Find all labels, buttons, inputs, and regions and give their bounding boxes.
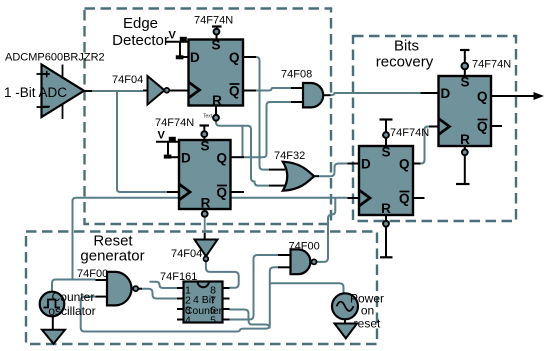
svg-text:Q: Q — [399, 157, 410, 172]
AND gate 74F08 — [291, 83, 331, 107]
svg-text:Q: Q — [229, 84, 240, 99]
svg-text:Q: Q — [229, 50, 240, 65]
wire clock line oscillator to FF3 clock — [73, 198, 348, 280]
svg-text:Counter: Counter — [185, 305, 223, 317]
wire FF1 R node to FF2 Q junction — [216, 121, 269, 186]
flip-flop FF2 74F74N — [167, 139, 244, 211]
svg-text:D: D — [361, 157, 371, 172]
svg-text:Q: Q — [477, 89, 488, 104]
svg-text:Counter: Counter — [52, 290, 95, 304]
Edge Detector block dashed box — [85, 9, 332, 225]
svg-text:74F00: 74F00 — [289, 241, 320, 253]
power on reset source — [332, 293, 358, 319]
counter oscillator source — [40, 292, 65, 317]
comparator U1 ADCMP600BRJZR2 — [37, 65, 85, 120]
wire reset net branch to Power-on-reset — [270, 283, 344, 293]
svg-text:R: R — [460, 132, 470, 147]
svg-text:1 -Bit ADC: 1 -Bit ADC — [4, 85, 67, 100]
svg-text:D: D — [441, 86, 451, 101]
wire branch to FF2 clock (vertical at x=117) — [117, 91, 167, 192]
svg-text:74F04: 74F04 — [171, 248, 202, 260]
svg-text:D: D — [190, 50, 200, 65]
svg-text:S: S — [460, 75, 469, 90]
svg-text:Text: Text — [203, 114, 213, 120]
ground for oscillator — [42, 316, 65, 344]
FF3 R node and ground stub — [380, 215, 393, 257]
ground for power on reset — [335, 319, 358, 338]
wire down inverter output to 74F161 pin8 — [206, 261, 239, 287]
svg-text:74F74N: 74F74N — [194, 15, 233, 27]
svg-text:generator: generator — [80, 248, 144, 265]
svg-text:Edge: Edge — [123, 15, 158, 32]
svg-text:Q: Q — [477, 119, 488, 134]
wire FF2 Q to AND gate bottom input — [244, 102, 291, 157]
wire FF1 Q down to OR gate top input — [256, 57, 269, 170]
FF1 R node circle — [213, 106, 219, 121]
wire 74F161 pin1 hook — [150, 282, 178, 288]
wire inverter output to FF1 clock — [169, 90, 189, 92]
svg-text:74F74N: 74F74N — [155, 117, 194, 129]
svg-text:oscillator: oscillator — [48, 304, 95, 318]
Reset generator block dashed box — [26, 232, 377, 345]
wire junction drop to FF2 Q line — [242, 126, 244, 157]
wire FF1 Qbar to AND gate top input — [256, 88, 291, 91]
wire reset net NAND1 bottom input riser and bottom run — [81, 267, 278, 331]
svg-text:V: V — [158, 130, 166, 142]
wire NAND2 output riser to clock line — [317, 198, 335, 262]
FF4 S pull-up bar and node — [460, 50, 470, 76]
svg-text:Detector: Detector — [112, 32, 169, 49]
wire comparator output to inverter input — [84, 90, 92, 92]
FF2 R node circle — [202, 209, 208, 217]
NAND gate 74F00 (left) — [96, 272, 143, 306]
svg-text:74F00: 74F00 — [77, 268, 108, 280]
wire 74F161 pin5 to NAND2 top input — [230, 255, 279, 320]
inverter 74F04 — [148, 76, 170, 105]
Bits recovery block dashed box — [353, 36, 516, 221]
svg-text:74F74N: 74F74N — [390, 127, 429, 139]
OR gate 74F32 — [269, 162, 319, 191]
svg-text:R: R — [381, 201, 391, 216]
svg-text:Q: Q — [399, 191, 410, 206]
FF2 Vcc symbol on D — [156, 130, 179, 159]
svg-text:on: on — [361, 304, 374, 318]
wire oscillator top to NAND1 top input — [52, 280, 96, 293]
svg-text:D: D — [181, 151, 191, 166]
wire OR output to FF3 D — [318, 164, 348, 177]
flip-flop FF3 74F74N — [348, 145, 425, 217]
FF4 R node and ground stub — [456, 146, 470, 184]
wire FF2 R node to down inverter — [204, 217, 206, 234]
svg-text:S: S — [381, 145, 390, 160]
output arrow from FF4 Q — [491, 92, 544, 100]
svg-text:74F161: 74F161 — [160, 271, 197, 283]
wire AND output to FF4 D — [330, 93, 421, 95]
svg-text:R: R — [212, 93, 222, 108]
svg-text:74F74N: 74F74N — [472, 59, 511, 71]
wire FF3 Q to FF4 clock — [420, 127, 429, 164]
wire 74F161 pin6 to reset net — [230, 310, 270, 329]
FF3 S pull-up bar and node — [380, 120, 393, 147]
svg-text:74F32: 74F32 — [274, 150, 305, 162]
svg-text:R: R — [201, 196, 211, 211]
svg-text:Bits: Bits — [394, 38, 419, 55]
FF2 S pull-up bar and node — [200, 126, 210, 141]
flip-flop FF4 74F74N — [421, 75, 503, 148]
svg-text:recovery: recovery — [376, 54, 434, 71]
NAND gate 74F00 (right) — [278, 249, 317, 274]
counter 74F161 — [177, 282, 230, 327]
FF1 S pull-up bar and node — [212, 27, 222, 40]
svg-text:ADCMP600BRJZR2: ADCMP600BRJZR2 — [5, 52, 105, 64]
FF1 Vcc symbol on D — [166, 30, 189, 60]
svg-text:S: S — [200, 139, 209, 154]
flip-flop FF1 74F74N — [178, 38, 256, 109]
svg-text:Q: Q — [216, 151, 227, 166]
down inverter 74F04 (reset) — [195, 240, 218, 262]
svg-text:74F04: 74F04 — [112, 74, 143, 86]
svg-text:Q: Q — [216, 185, 227, 200]
wire NAND1 output to 74F161 pin2 — [141, 289, 177, 299]
svg-text:V: V — [169, 30, 177, 42]
svg-text:S: S — [211, 38, 220, 53]
svg-text:74F08: 74F08 — [281, 69, 312, 81]
